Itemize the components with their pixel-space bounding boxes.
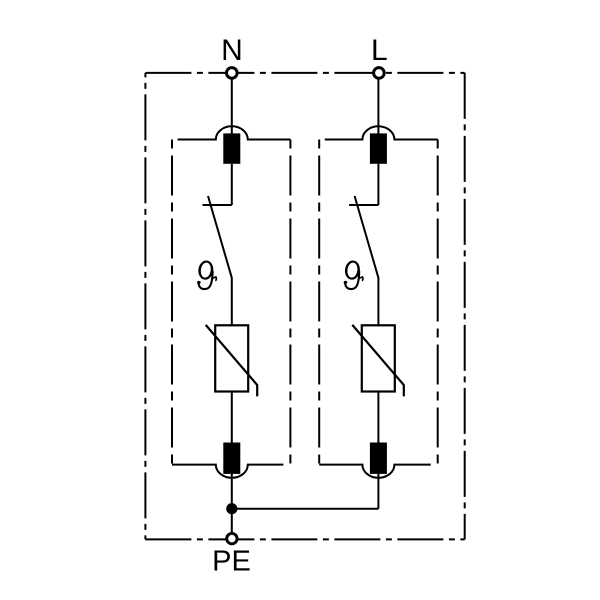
svg-text:N: N	[221, 34, 243, 67]
svg-text:PE: PE	[212, 546, 251, 578]
svg-text:L: L	[371, 34, 388, 67]
